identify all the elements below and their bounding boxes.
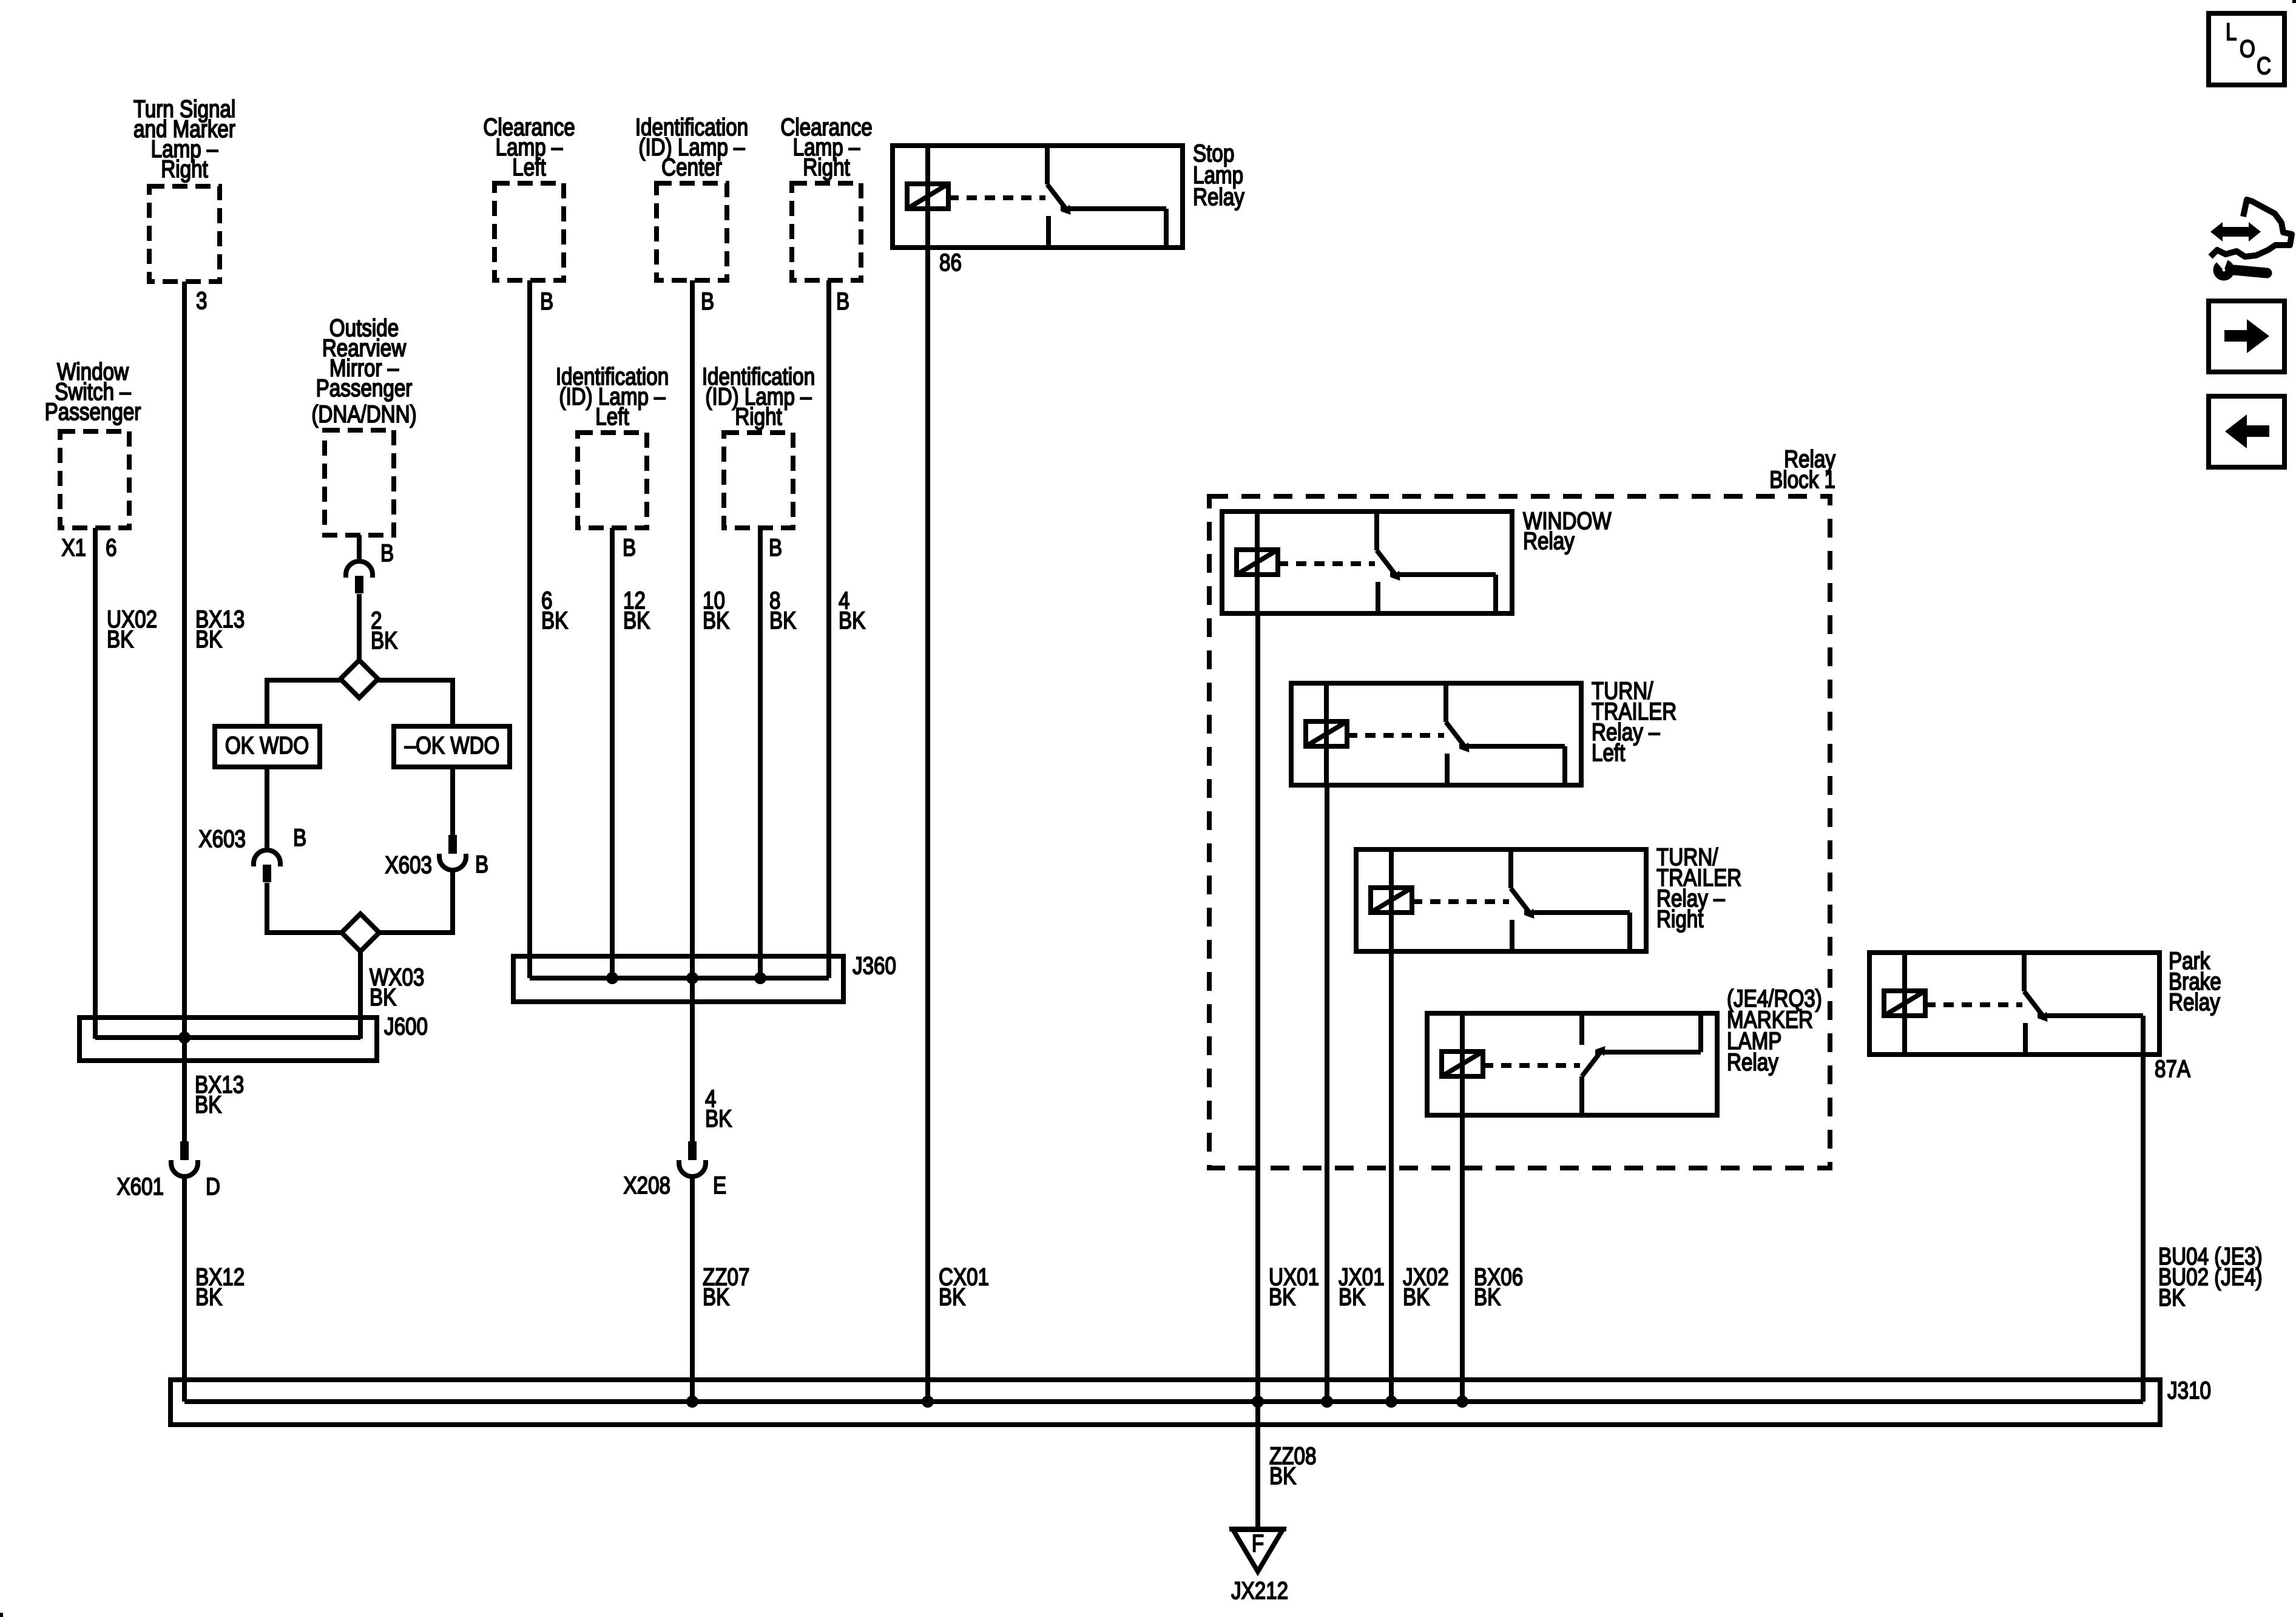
svg-text:Left: Left <box>595 403 629 430</box>
svg-text:BK: BK <box>541 607 569 634</box>
svg-text:BK: BK <box>2158 1284 2186 1311</box>
svg-text:J310: J310 <box>2167 1377 2211 1404</box>
svg-text:BK: BK <box>370 984 397 1011</box>
svg-text:BK: BK <box>195 1091 222 1118</box>
svg-text:(DNA/DNN): (DNA/DNN) <box>311 400 416 428</box>
svg-text:X1: X1 <box>61 534 86 561</box>
svg-text:JX212: JX212 <box>1231 1577 1288 1604</box>
svg-text:BK: BK <box>195 1283 223 1311</box>
svg-text:B: B <box>475 851 488 878</box>
svg-text:BK: BK <box>705 1105 732 1132</box>
svg-text:6: 6 <box>106 534 116 561</box>
svg-text:O: O <box>2240 35 2255 62</box>
svg-text:F: F <box>1252 1530 1264 1557</box>
svg-text:D: D <box>206 1173 220 1200</box>
svg-text:B: B <box>701 288 714 315</box>
svg-text:BK: BK <box>1269 1462 1297 1490</box>
svg-text:B: B <box>293 824 306 851</box>
svg-text:BK: BK <box>1474 1283 1501 1311</box>
svg-text:L: L <box>2226 18 2237 46</box>
svg-text:BK: BK <box>839 607 866 634</box>
svg-text:B: B <box>540 288 553 315</box>
svg-text:OK WDO: OK WDO <box>225 732 309 759</box>
svg-text:Passenger: Passenger <box>316 374 413 402</box>
svg-text:BK: BK <box>1269 1283 1296 1311</box>
svg-text:BK: BK <box>623 607 650 634</box>
svg-text:Relay: Relay <box>1523 527 1575 555</box>
svg-text:BK: BK <box>107 626 134 653</box>
svg-text:Center: Center <box>661 154 722 181</box>
svg-text:Left: Left <box>1592 739 1625 766</box>
svg-text:Right: Right <box>735 403 782 430</box>
svg-text:Relay: Relay <box>1193 183 1244 211</box>
svg-text:Block 1: Block 1 <box>1769 466 1835 493</box>
svg-text:J360: J360 <box>853 952 896 979</box>
svg-text:BK: BK <box>1339 1283 1366 1311</box>
svg-text:Right: Right <box>1656 905 1703 933</box>
svg-text:X603: X603 <box>198 825 246 852</box>
svg-text:BK: BK <box>703 607 730 634</box>
svg-text:BK: BK <box>1403 1283 1430 1311</box>
svg-text:B: B <box>836 288 849 315</box>
svg-text:X208: X208 <box>623 1172 670 1199</box>
svg-text:Relay: Relay <box>2169 988 2220 1016</box>
svg-text:BK: BK <box>769 607 797 634</box>
svg-text:BK: BK <box>939 1283 966 1311</box>
svg-text:B: B <box>623 534 636 561</box>
svg-text:C: C <box>2257 52 2271 79</box>
svg-text:B: B <box>769 534 782 561</box>
svg-text:3: 3 <box>196 287 207 314</box>
svg-text:87A: 87A <box>2155 1055 2191 1082</box>
svg-text:X603: X603 <box>385 851 432 879</box>
svg-text:B: B <box>380 539 394 567</box>
svg-text:X601: X601 <box>116 1173 164 1200</box>
svg-text:Left: Left <box>512 154 545 181</box>
svg-text:Right: Right <box>803 154 849 181</box>
svg-text:86: 86 <box>939 249 962 276</box>
svg-text:BK: BK <box>371 627 398 654</box>
svg-text:Relay: Relay <box>1727 1048 1778 1076</box>
svg-text:BK: BK <box>195 626 223 653</box>
svg-text:BK: BK <box>703 1283 730 1311</box>
svg-text:–OK WDO: –OK WDO <box>405 732 500 759</box>
svg-text:Passenger: Passenger <box>45 398 141 425</box>
svg-text:Right: Right <box>161 155 208 183</box>
svg-text:E: E <box>713 1172 726 1199</box>
svg-text:J600: J600 <box>384 1013 428 1040</box>
